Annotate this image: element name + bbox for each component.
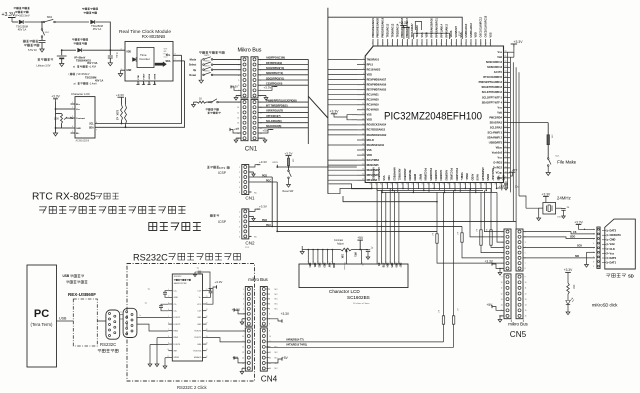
svg-text:16: 16 xyxy=(362,133,364,135)
svg-text:2: 2 xyxy=(239,172,240,174)
ground xyxy=(288,179,290,185)
svg-text:VBUS: VBUS xyxy=(450,30,453,37)
svg-text:56: 56 xyxy=(505,81,507,83)
svg-text:BL+: BL+ xyxy=(76,104,81,106)
svg-text:12: 12 xyxy=(501,293,503,295)
svg-text:10K: 10K xyxy=(54,117,59,121)
svg-text:NC: NC xyxy=(275,289,279,291)
svg-text:33: 33 xyxy=(407,183,409,185)
svg-text:45V 1A: 45V 1A xyxy=(18,28,27,32)
svg-text:RE7/PMD7/AN15: RE7/PMD7/AN15 xyxy=(367,89,387,92)
wire CS xyxy=(523,232,595,234)
svg-text:34: 34 xyxy=(412,183,414,185)
svg-text:MGAUD: MGAUD xyxy=(194,356,202,359)
ground microSD xyxy=(587,251,596,253)
svg-text:89: 89 xyxy=(427,42,429,44)
svg-text:DB5: DB5 xyxy=(390,263,392,268)
svg-text:TSG250M: TSG250M xyxy=(91,24,103,28)
svg-text:DB4: DB4 xyxy=(386,263,389,268)
svg-text:66: 66 xyxy=(505,131,507,133)
svg-text:SDO2/RPG8(Y1): SDO2/RPG8(Y1) xyxy=(266,77,284,80)
svg-text:25: 25 xyxy=(362,179,364,181)
svg-text:92: 92 xyxy=(412,42,414,44)
svg-text:PMD4/RE4/AN21: PMD4/RE4/AN21 xyxy=(372,17,375,37)
svg-text:14: 14 xyxy=(501,305,503,307)
svg-text:PGD2/RB5: PGD2/RB5 xyxy=(429,168,432,181)
svg-text:26: 26 xyxy=(370,183,372,185)
svg-text:AVDD: AVDD xyxy=(470,174,473,181)
svg-text:FOUT: FOUT xyxy=(143,73,145,80)
svg-text:1: 1 xyxy=(502,231,503,233)
svg-text:30: 30 xyxy=(391,183,393,185)
svg-text:SCL2/RA2: SCL2/RA2 xyxy=(490,127,503,130)
svg-text:CD/DAT3: CD/DAT3 xyxy=(610,233,622,237)
svg-text:VSS: VSS xyxy=(367,149,372,152)
wire long PGD2 line dots xyxy=(376,221,378,223)
svg-text:BPR5: BPR5 xyxy=(273,162,279,164)
svg-text:SOSCO/RC14: SOSCO/RC14 xyxy=(486,61,503,64)
svg-text:Vdd: Vdd xyxy=(610,242,615,246)
svg-text:97: 97 xyxy=(387,42,389,44)
svg-text:VDD: VDD xyxy=(126,51,131,53)
svg-text:7: 7 xyxy=(502,263,503,265)
svg-text:1x: 1x xyxy=(120,312,122,314)
svg-text:GND: GND xyxy=(174,297,179,299)
svg-text:+3.3V: +3.3V xyxy=(116,93,124,97)
svg-text:88: 88 xyxy=(431,42,433,44)
CN1 lower right signal wires xyxy=(258,101,308,103)
svg-text:Reset SW: Reset SW xyxy=(283,190,295,193)
svg-text:91: 91 xyxy=(417,42,419,44)
svg-text:AN2/RB2: AN2/RB2 xyxy=(444,170,447,181)
wire SCK xyxy=(523,246,595,248)
svg-text:6: 6 xyxy=(155,83,156,85)
svg-text:AN7/RB11: AN7/RB11 xyxy=(398,169,401,182)
svg-text:10: 10 xyxy=(167,349,169,351)
svg-text:9: 9 xyxy=(525,277,526,279)
svg-text:19: 19 xyxy=(206,309,208,311)
svg-text:47: 47 xyxy=(479,183,481,185)
connector ICSP CN2 xyxy=(210,215,215,217)
svg-text:RE5/PMD5/AN17: RE5/PMD5/AN17 xyxy=(367,78,387,81)
svg-text:19: 19 xyxy=(362,148,364,150)
schottky diode D3 xyxy=(78,48,82,52)
svg-text:3: 3 xyxy=(363,68,364,70)
svg-text:68: 68 xyxy=(505,141,507,143)
svg-text:2: 2 xyxy=(363,63,364,65)
svg-text:+3.3V: +3.3V xyxy=(281,312,290,316)
svg-text:4: 4 xyxy=(243,304,244,306)
svg-text:90: 90 xyxy=(422,42,424,44)
svg-text:6: 6 xyxy=(363,83,364,85)
svg-text:VF=163.3mV: VF=163.3mV xyxy=(14,14,29,18)
svg-text:AVSS: AVSS xyxy=(476,174,479,181)
svg-text:10: 10 xyxy=(269,336,271,338)
svg-text:20: 20 xyxy=(362,154,364,156)
svg-text:Charactor LCD: Charactor LCD xyxy=(329,289,360,294)
svg-text:OSC2/CLKO/RC15: OSC2/CLKO/RC15 xyxy=(485,15,488,37)
svg-text:RG9/SS2/AN11: RG9/SS2/AN11 xyxy=(367,144,385,147)
svg-text:62: 62 xyxy=(505,111,507,113)
svg-text:VDD: VDD xyxy=(367,154,372,157)
svg-text:Vss: Vss xyxy=(610,251,615,255)
svg-text:DOUT2: DOUT2 xyxy=(174,324,182,326)
svg-text:miKroSD click: miKroSD click xyxy=(592,303,618,308)
svg-text:13: 13 xyxy=(525,299,527,301)
svg-text:RC3/AN19: RC3/AN19 xyxy=(367,104,380,107)
svg-text:RG7/SDI2/AN13: RG7/SDI2/AN13 xyxy=(367,129,386,132)
svg-text:SDI2/RPG7(Y2): SDI2/RPG7(Y2) xyxy=(266,72,283,75)
svg-text:360: 360 xyxy=(572,285,576,290)
wire xyxy=(25,21,44,23)
svg-text:RC2/AN20: RC2/AN20 xyxy=(367,99,380,102)
svg-text:70: 70 xyxy=(505,151,507,153)
svg-text:9: 9 xyxy=(238,102,239,104)
svg-text:SD: SD xyxy=(628,274,634,279)
svg-text:+1.45A: +1.45A xyxy=(89,66,97,69)
svg-text:PL01: PL01 xyxy=(245,247,249,249)
wire file make xyxy=(510,122,548,124)
svg-text:PMC3/RD4: PMC3/RD4 xyxy=(489,116,502,119)
svg-text:1: 1 xyxy=(307,261,309,262)
svg-text:+3.3V: +3.3V xyxy=(259,205,267,209)
wire bus2 bottom link xyxy=(328,188,372,193)
svg-text:1x: 1x xyxy=(139,315,141,317)
title timestamp file xyxy=(39,207,185,214)
title circuit diagram xyxy=(149,223,201,231)
svg-text:BL-: BL- xyxy=(76,133,80,135)
svg-text:8: 8 xyxy=(363,93,364,95)
svg-text:8: 8 xyxy=(269,324,270,326)
svg-text:46: 46 xyxy=(474,183,476,185)
svg-text:1: 1 xyxy=(239,211,240,213)
svg-text:5: 5 xyxy=(72,131,73,133)
wire SCL net xyxy=(95,55,182,123)
switch mode select xyxy=(211,101,213,103)
svg-text:SPDR: SPDR xyxy=(174,357,180,359)
svg-text:+3.3V: +3.3V xyxy=(231,84,239,88)
svg-text:12: 12 xyxy=(237,118,239,120)
svg-text:SDA4/RG6(B): SDA4/RG6(B) xyxy=(266,125,281,128)
svg-text:PIC32MZ2048EFH100: PIC32MZ2048EFH100 xyxy=(384,111,482,123)
svg-text:8: 8 xyxy=(525,268,526,270)
svg-text:9: 9 xyxy=(243,330,244,332)
svg-text:MAX3232CSE: MAX3232CSE xyxy=(174,282,188,285)
wire xyxy=(83,49,126,51)
svg-text:+3.3V: +3.3V xyxy=(51,95,60,99)
svg-text:82: 82 xyxy=(461,42,463,44)
schottky diode D1 xyxy=(19,20,23,24)
svg-text:93: 93 xyxy=(407,42,409,44)
svg-text:VREF+: VREF+ xyxy=(460,172,463,181)
svg-text:36: 36 xyxy=(422,183,424,185)
svg-text:+3.3V: +3.3V xyxy=(574,220,583,224)
svg-text:5: 5 xyxy=(243,309,244,311)
svg-text:50: 50 xyxy=(495,183,497,185)
svg-text:SW21: SW21 xyxy=(204,55,210,57)
svg-text:+3.3V: +3.3V xyxy=(564,268,573,272)
svg-text:44: 44 xyxy=(464,183,466,185)
svg-text:11: 11 xyxy=(384,261,386,263)
svg-text:D-/RG3: D-/RG3 xyxy=(494,162,503,165)
operation switch block label xyxy=(199,52,224,54)
svg-text:FOE: FOE xyxy=(138,74,140,79)
svg-text:RPE8/AN25/RG0: RPE8/AN25/RG0 xyxy=(431,17,434,37)
svg-text:VDD: VDD xyxy=(502,175,505,180)
svg-text:ACM1602NI: ACM1602NI xyxy=(76,139,90,142)
svg-text:13: 13 xyxy=(393,261,395,263)
svg-text:Adjust: Adjust xyxy=(337,243,344,246)
battery BT1 button cell xyxy=(61,50,63,55)
svg-text:3: 3 xyxy=(139,83,140,85)
ground xyxy=(108,63,112,66)
svg-text:21: 21 xyxy=(362,159,364,161)
svg-text:PGC2/RB6: PGC2/RB6 xyxy=(424,168,427,181)
wire xyxy=(96,22,111,50)
svg-text:1K: 1K xyxy=(199,98,202,101)
svg-text:RG6/SCK2/AN14: RG6/SCK2/AN14 xyxy=(367,124,387,127)
svg-text:STB: STB xyxy=(381,263,383,268)
svg-text:4: 4 xyxy=(72,126,73,128)
svg-text:14: 14 xyxy=(242,357,244,359)
svg-text:(Tera Term): (Tera Term) xyxy=(31,322,53,327)
svg-text:Vss: Vss xyxy=(498,106,503,109)
wire xyxy=(55,21,89,23)
svg-text:OSC1: OSC1 xyxy=(557,216,564,218)
svg-text:CN4: CN4 xyxy=(261,375,278,384)
svg-text:RE4/AN27: RE4/AN27 xyxy=(491,169,494,182)
svg-text:+3.3V: +3.3V xyxy=(514,40,524,44)
svg-text:SW23: SW23 xyxy=(204,66,210,68)
svg-text:10: 10 xyxy=(237,107,239,109)
svg-text:Vss: Vss xyxy=(498,51,503,54)
wire vertical right drops xyxy=(507,52,509,188)
svg-text:10: 10 xyxy=(501,282,503,284)
svg-text:35: 35 xyxy=(417,183,419,185)
ground U2 left xyxy=(156,338,158,364)
svg-text:9: 9 xyxy=(269,330,270,332)
svg-text:USB: USB xyxy=(59,317,67,321)
REX-USB60F dashed box xyxy=(73,299,97,346)
svg-text:Down: Down xyxy=(189,74,196,77)
svg-text:SDA2/FPT WTF 4: SDA2/FPT WTF 4 xyxy=(482,101,503,104)
ground LED xyxy=(566,312,570,315)
svg-text:53: 53 xyxy=(505,66,507,68)
svg-text:NC: NC xyxy=(254,237,258,239)
svg-text:4: 4 xyxy=(239,182,240,184)
wire PGC link xyxy=(277,230,437,232)
svg-text:2: 2 xyxy=(243,294,244,296)
svg-text:ROUT16: ROUT16 xyxy=(193,351,202,353)
svg-text:8: 8 xyxy=(175,53,176,55)
svg-text:13: 13 xyxy=(501,299,503,301)
svg-text:RS232C: RS232C xyxy=(133,253,168,263)
svg-text:+3.3V: +3.3V xyxy=(264,86,272,90)
wire mesh below PIC xyxy=(372,187,491,189)
svg-text:42: 42 xyxy=(453,183,455,185)
svg-text:at: at xyxy=(74,82,76,85)
svg-text:SCL2/FPT WTF 5: SCL2/FPT WTF 5 xyxy=(482,96,503,99)
svg-text:VSS: VSS xyxy=(367,114,372,117)
svg-text:12: 12 xyxy=(362,113,364,115)
svg-text:7: 7 xyxy=(363,88,364,90)
svg-text:NC: NC xyxy=(275,357,279,359)
svg-text:14: 14 xyxy=(397,261,399,263)
svg-text:RC1/AN21: RC1/AN21 xyxy=(367,94,380,97)
svg-text:RS232C: RS232C xyxy=(174,276,182,278)
microSD card xyxy=(605,219,636,269)
wire SDI xyxy=(523,257,595,259)
switch SW2 xyxy=(41,22,43,29)
svg-text:Mode: Mode xyxy=(190,59,197,62)
svg-text:ROUT1: ROUT1 xyxy=(195,331,203,333)
svg-text:AN3/RB3: AN3/RB3 xyxy=(439,170,442,181)
svg-text:AN2/RPG6(C1IN): AN2/RPG6(C1IN) xyxy=(266,57,285,60)
svg-text:+5V: +5V xyxy=(263,129,268,133)
svg-text:AN46/RB14: AN46/RB14 xyxy=(372,167,375,181)
svg-text:AN44/RB12: AN44/RB12 xyxy=(392,167,395,181)
svg-text:C2Y: C2Y xyxy=(197,311,202,313)
svg-text:DB6: DB6 xyxy=(394,263,396,268)
svg-text:67: 67 xyxy=(505,136,507,138)
svg-text:55: 55 xyxy=(505,76,507,78)
svg-text:VR1: VR1 xyxy=(353,252,356,257)
wire MCLR xyxy=(288,166,290,168)
svg-text:mikro Bus: mikro Bus xyxy=(248,277,268,282)
svg-text:TMS/RA10: TMS/RA10 xyxy=(367,58,380,61)
svg-text:51: 51 xyxy=(505,56,507,58)
svg-text:NC: NC xyxy=(275,309,279,311)
svg-text:24: 24 xyxy=(362,174,364,176)
svg-text:SCL4/WIFI 3: SCL4/WIFI 3 xyxy=(488,132,503,135)
wire bus vertical 2 xyxy=(327,8,329,194)
svg-text:SW24: SW24 xyxy=(204,71,210,73)
svg-text:+5V: +5V xyxy=(282,356,289,360)
svg-text:+3.3V: +3.3V xyxy=(330,110,340,114)
svg-text:VDD: VDD xyxy=(475,32,478,37)
svg-text:78: 78 xyxy=(480,42,482,44)
LCD ground rail xyxy=(302,249,340,251)
svg-text:45: 45 xyxy=(469,183,471,185)
svg-text:6: 6 xyxy=(96,122,97,124)
svg-text:GND: GND xyxy=(76,128,81,130)
svg-text:NC: NC xyxy=(275,294,279,296)
connector CN5 mikro bus xyxy=(504,229,511,271)
svg-text:Character LCD: Character LCD xyxy=(71,92,90,96)
svg-text:RA1/TMS2: RA1/TMS2 xyxy=(367,159,380,162)
svg-text:SDO: SDO xyxy=(570,236,575,239)
svg-text:RPB8: RPB8 xyxy=(413,174,416,181)
svg-text:Vdd: Vdd xyxy=(497,56,502,59)
svg-text:99: 99 xyxy=(378,42,380,44)
microcontroller U1 PIC32MZ2048EFH100 xyxy=(365,46,503,183)
svg-text:VCap: VCap xyxy=(496,172,503,175)
svg-text:4: 4 xyxy=(239,226,240,228)
svg-text:Counter: Counter xyxy=(139,57,150,61)
svg-text:31: 31 xyxy=(396,183,398,185)
svg-text:+5V: +5V xyxy=(357,236,364,240)
svg-text:RTCC/IC3/RD15: RTCC/IC3/RD15 xyxy=(483,76,502,79)
svg-text:VREF-: VREF- xyxy=(465,173,468,181)
svg-text:+5V: +5V xyxy=(234,127,239,131)
svg-text:5: 5 xyxy=(239,231,240,233)
svg-text:DB3: DB3 xyxy=(323,263,325,268)
wire stair W2 xyxy=(343,196,437,202)
svg-text:86: 86 xyxy=(441,42,443,44)
svg-text:TRD1/RG13: TRD1/RG13 xyxy=(387,23,390,37)
svg-text:63: 63 xyxy=(505,116,507,118)
IC U2 level converter xyxy=(172,274,202,361)
svg-text:REX-USB60F: REX-USB60F xyxy=(68,292,96,297)
wire CN5 bottom stubs xyxy=(510,320,512,323)
svg-text:SDA: SDA xyxy=(165,60,170,63)
oscillator symbol xyxy=(133,58,137,62)
display LCD SC1602BS xyxy=(299,264,408,288)
svg-text:9: 9 xyxy=(593,266,594,268)
svg-text:+3.3V: +3.3V xyxy=(259,160,267,164)
svg-text:6: 6 xyxy=(502,258,503,260)
svg-text:5: 5 xyxy=(593,248,594,250)
wire ICSP link verticals xyxy=(271,177,273,226)
svg-text:ICSP: ICSP xyxy=(218,171,227,175)
svg-text:VSS: VSS xyxy=(489,32,492,37)
svg-text:CN5: CN5 xyxy=(510,330,527,339)
svg-text:2: 2 xyxy=(239,216,240,218)
svg-text:AN6/RB10: AN6/RB10 xyxy=(403,168,406,181)
svg-text:2: 2 xyxy=(502,237,503,239)
ground ICSP1 row2 xyxy=(249,171,254,173)
svg-text:-1.4mA: -1.4mA xyxy=(89,82,97,85)
svg-text:64: 64 xyxy=(505,121,507,123)
svg-text:98: 98 xyxy=(382,42,384,44)
svg-text:10K: 10K xyxy=(340,254,343,259)
resistor series U4RX xyxy=(443,192,445,315)
svg-text:4: 4 xyxy=(363,73,364,75)
svg-text:12: 12 xyxy=(525,293,527,295)
svg-text:MCLR: MCLR xyxy=(367,139,374,142)
svg-text:3: 3 xyxy=(525,242,526,244)
svg-text:37: 37 xyxy=(427,183,429,185)
svg-text:NC: NC xyxy=(275,304,279,306)
svg-text:28: 28 xyxy=(381,183,383,185)
svg-text:14: 14 xyxy=(206,343,208,345)
CN1 right signal wires xyxy=(258,58,308,60)
arrow output xyxy=(155,62,167,67)
svg-text:DB0: DB0 xyxy=(308,263,310,268)
svg-text:C1-: C1- xyxy=(174,304,178,306)
svg-text:ROUT2: ROUT2 xyxy=(195,337,203,339)
svg-text:49: 49 xyxy=(490,183,492,185)
capacitor electric double layer xyxy=(41,37,43,40)
svg-text:PMD2/RE2/AN19: PMD2/RE2/AN19 xyxy=(382,17,385,37)
microSD label xyxy=(606,274,625,278)
svg-text:10: 10 xyxy=(242,336,244,338)
svg-text:81: 81 xyxy=(466,42,468,44)
svg-text:NC: NC xyxy=(254,192,258,194)
svg-text:32: 32 xyxy=(401,183,403,185)
svg-text:RC4/AN18: RC4/AN18 xyxy=(367,109,380,112)
resistor 1K mode select xyxy=(193,102,195,104)
ground xyxy=(547,166,549,172)
svg-text:DB7: DB7 xyxy=(399,263,401,268)
svg-text:DB1: DB1 xyxy=(313,263,315,268)
svg-text:0.1u: 0.1u xyxy=(115,53,119,59)
wire bus diagonal xyxy=(308,96,328,118)
svg-text:80: 80 xyxy=(471,42,473,44)
svg-text:VBus: VBus xyxy=(496,147,503,150)
ground xyxy=(60,64,64,67)
svg-text:RS: RS xyxy=(377,263,379,267)
